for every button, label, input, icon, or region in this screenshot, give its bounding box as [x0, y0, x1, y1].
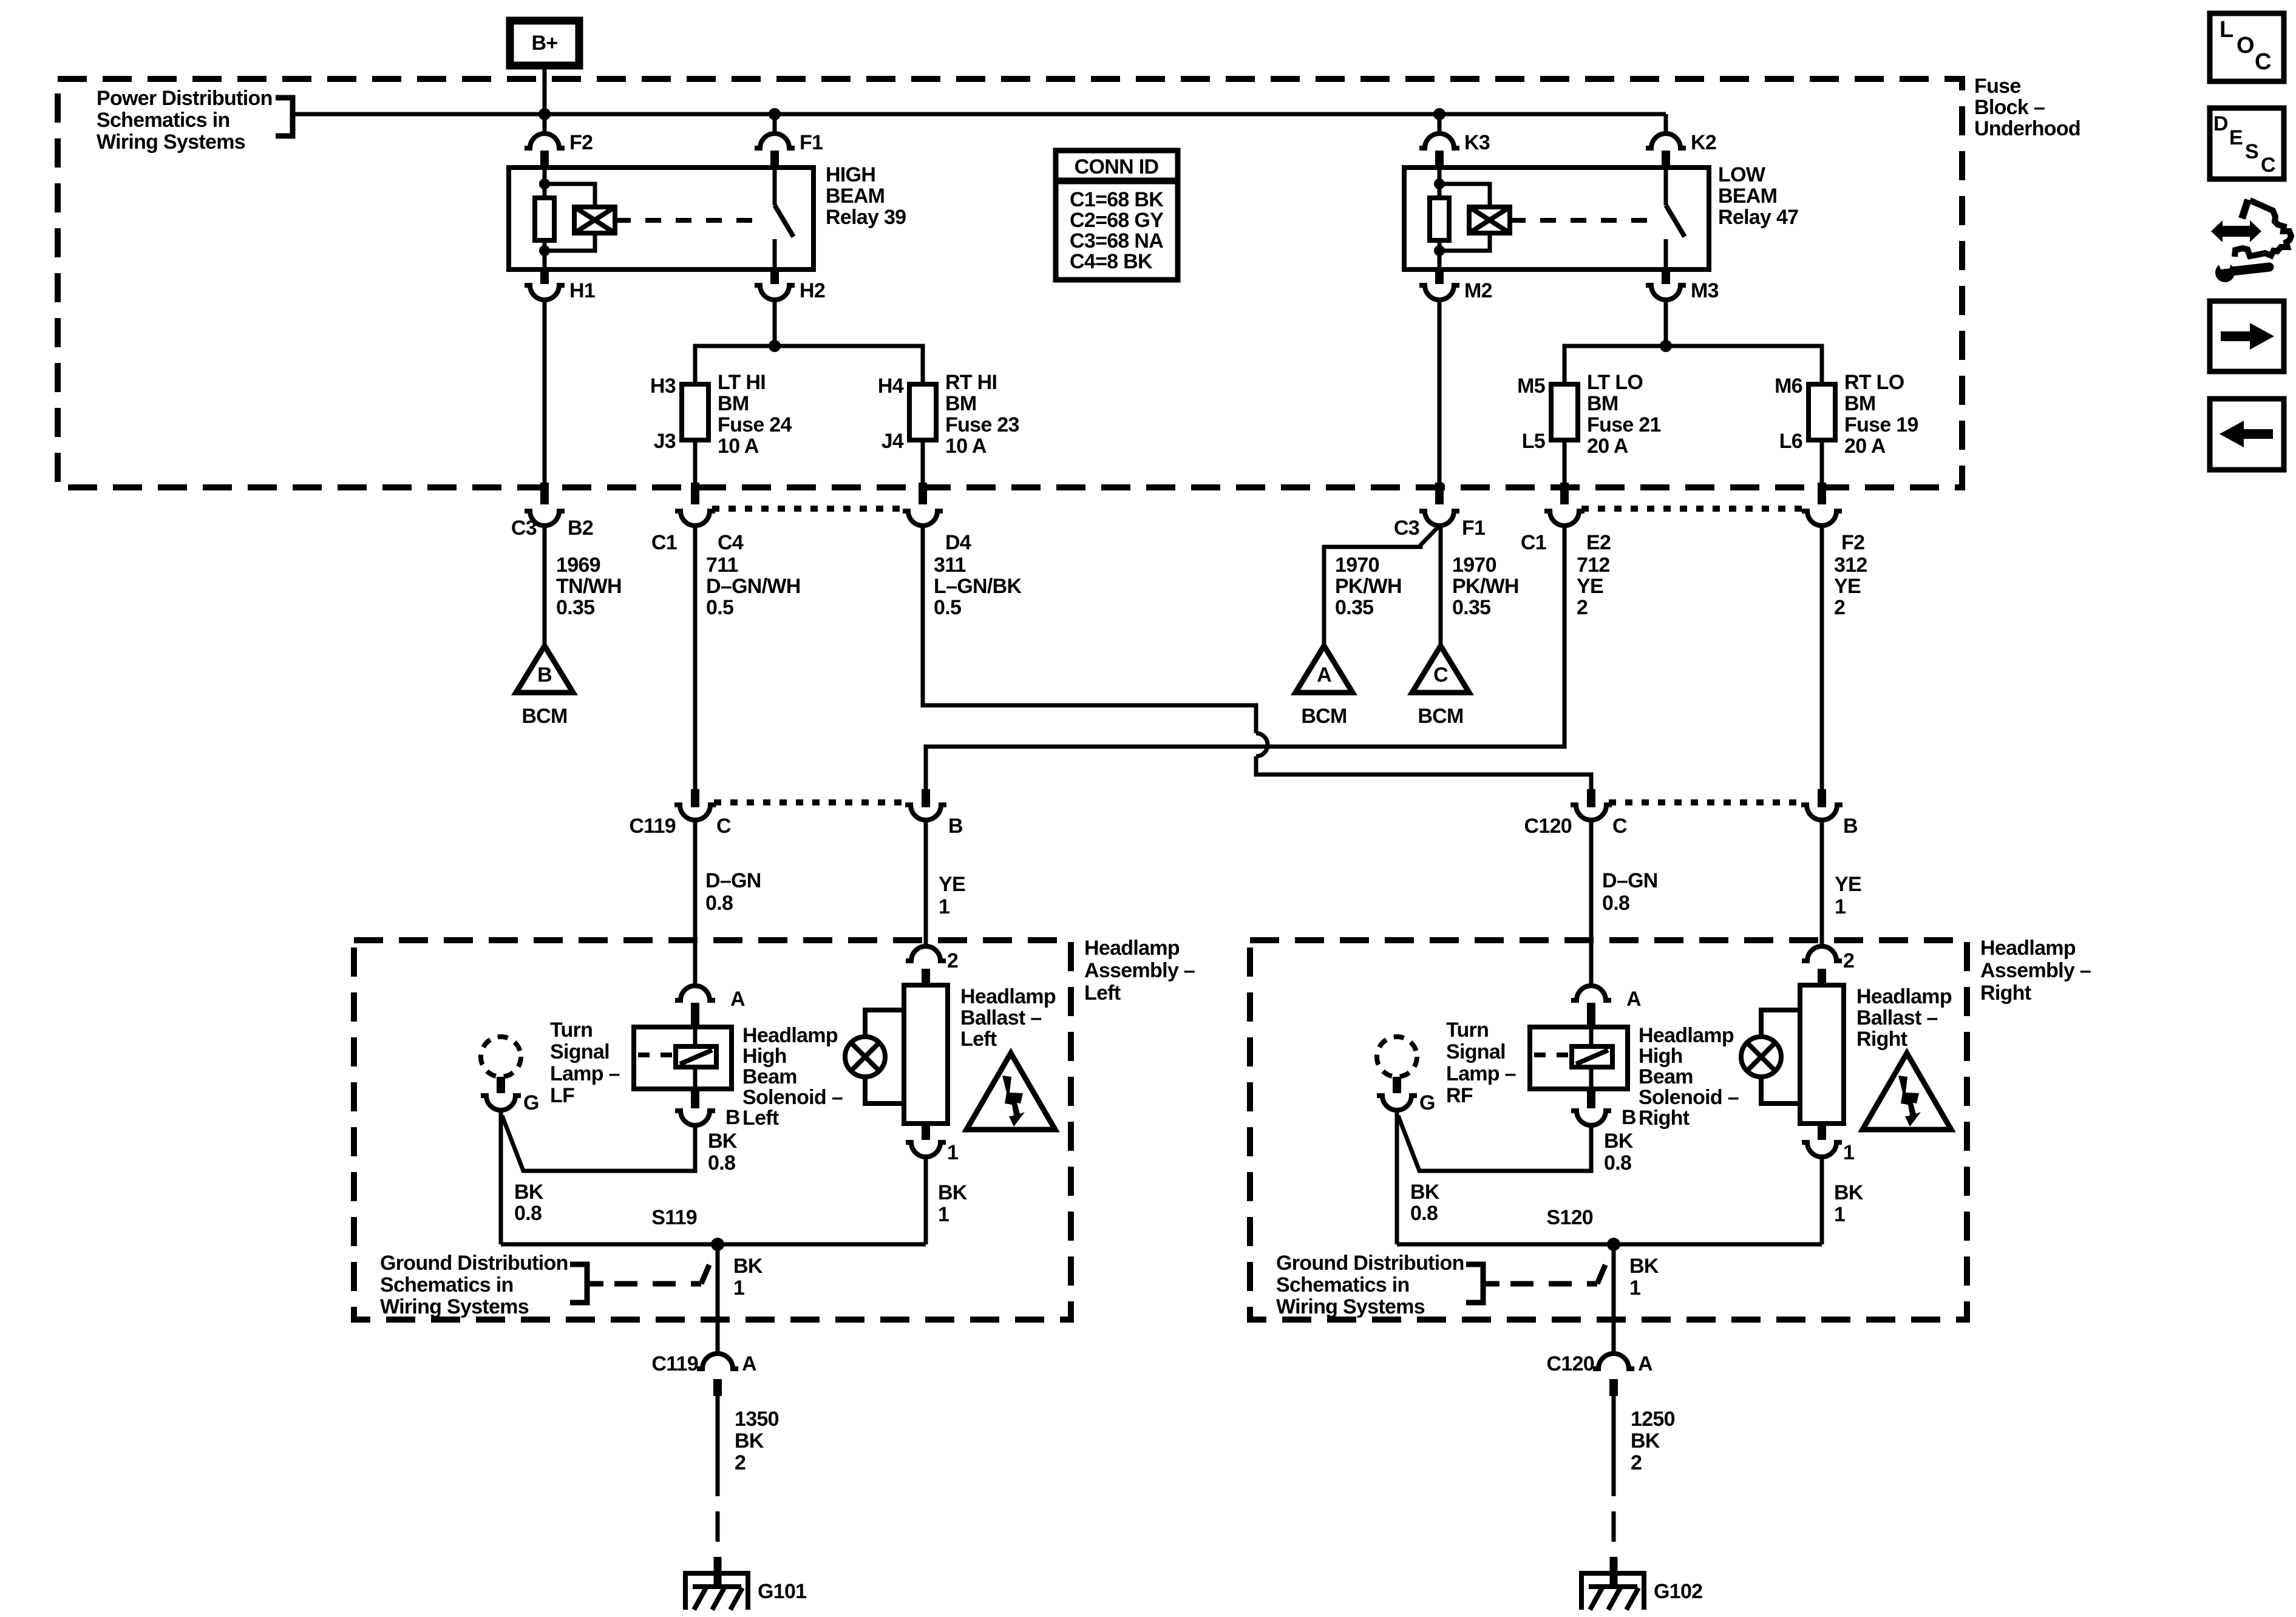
svg-text:2: 2 — [1577, 596, 1588, 619]
icon arrow right — [2210, 301, 2284, 371]
svg-text:O: O — [2237, 33, 2254, 58]
solenoid coil — [676, 1046, 716, 1067]
headlamp ballast Right — [1800, 985, 1844, 1124]
svg-text:Headlamp: Headlamp — [1856, 985, 1952, 1008]
lamp circle — [1741, 1037, 1781, 1077]
coil — [1469, 207, 1510, 233]
svg-text:B: B — [725, 1106, 740, 1129]
connector cup — [1802, 511, 1842, 526]
coil — [574, 207, 615, 233]
node bus/K3 — [1433, 108, 1445, 120]
connector pin H2 — [770, 269, 779, 284]
svg-text:Ballast –: Ballast – — [1856, 1006, 1938, 1029]
svg-text:S120: S120 — [1546, 1206, 1593, 1229]
fuse LT LO BM Fuse 21 20A — [1551, 384, 1578, 440]
svg-text:J3: J3 — [654, 430, 676, 453]
svg-text:Headlamp: Headlamp — [1980, 937, 2076, 960]
svg-text:0.8: 0.8 — [1602, 892, 1629, 915]
dashed link — [638, 1053, 676, 1057]
svg-text:Fuse 23: Fuse 23 — [945, 413, 1019, 436]
svg-text:RF: RF — [1446, 1084, 1473, 1107]
connector pin G — [497, 1077, 505, 1093]
svg-text:B: B — [1622, 1106, 1636, 1129]
wire 1970 to BCM C — [1439, 526, 1443, 646]
connector stub — [1560, 483, 1569, 504]
svg-text:1: 1 — [939, 895, 949, 918]
wire bus to F2 — [543, 114, 547, 134]
solenoid coil — [1572, 1046, 1612, 1067]
svg-text:D–GN/WH: D–GN/WH — [706, 575, 801, 598]
svg-text:L6: L6 — [1779, 430, 1802, 453]
svg-text:YE: YE — [1834, 575, 1861, 598]
svg-text:B+: B+ — [531, 32, 557, 55]
svg-text:BM: BM — [945, 392, 976, 415]
svg-text:BEAM: BEAM — [1718, 185, 1777, 208]
svg-text:High: High — [1639, 1045, 1683, 1068]
svg-text:Wiring Systems: Wiring Systems — [380, 1295, 529, 1318]
svg-text:10 A: 10 A — [945, 435, 987, 458]
svg-text:Left: Left — [1084, 981, 1121, 1005]
svg-text:Right: Right — [1856, 1028, 1907, 1051]
node fuse branch right — [1660, 340, 1672, 352]
svg-text:1969: 1969 — [556, 554, 600, 577]
svg-text:Wiring Systems: Wiring Systems — [1276, 1295, 1425, 1318]
svg-text:F2: F2 — [1841, 531, 1864, 554]
svg-text:1: 1 — [1834, 1203, 1845, 1226]
svg-text:1250: 1250 — [1631, 1408, 1675, 1431]
svg-text:Schematics in: Schematics in — [1276, 1273, 1410, 1297]
svg-text:A: A — [742, 1352, 756, 1375]
lamp circle — [845, 1037, 885, 1077]
svg-text:C119: C119 — [651, 1352, 698, 1375]
connector pin F2 — [525, 134, 565, 148]
svg-text:C120: C120 — [1524, 815, 1572, 838]
resistor — [535, 198, 554, 240]
switch — [773, 168, 777, 205]
svg-text:LOW: LOW — [1718, 163, 1766, 186]
node fuse branch left — [769, 340, 781, 352]
svg-text:20 A: 20 A — [1844, 435, 1886, 458]
svg-text:C: C — [1433, 663, 1448, 686]
svg-text:RT LO: RT LO — [1844, 371, 1904, 394]
svg-text:2: 2 — [1834, 596, 1845, 619]
icon wrench — [2215, 263, 2235, 282]
connector pin B solenoid — [1587, 1089, 1595, 1108]
svg-text:C1: C1 — [651, 531, 677, 554]
svg-text:Ballast –: Ballast – — [960, 1006, 1042, 1029]
dotted connector link C119 — [714, 799, 908, 805]
svg-text:K2: K2 — [1691, 131, 1716, 154]
svg-text:0.5: 0.5 — [934, 596, 961, 619]
warning triangle high voltage — [966, 1053, 1055, 1130]
svg-text:PK/WH: PK/WH — [1335, 575, 1402, 598]
svg-text:C: C — [2255, 49, 2271, 75]
svg-text:B: B — [537, 663, 552, 686]
dashed link — [1534, 1053, 1572, 1057]
headlamp high beam solenoid Right box — [1530, 1027, 1628, 1089]
svg-text:Headlamp: Headlamp — [742, 1024, 838, 1047]
bracket ground note — [570, 1264, 587, 1303]
svg-text:PK/WH: PK/WH — [1452, 575, 1519, 598]
svg-text:HIGH: HIGH — [826, 163, 875, 186]
svg-text:1: 1 — [1629, 1276, 1640, 1300]
connector pin 1 ballast — [1818, 1124, 1826, 1140]
svg-text:D–GN: D–GN — [705, 869, 761, 892]
connector pin H1 — [540, 269, 549, 284]
svg-text:BK: BK — [514, 1181, 544, 1204]
wire 1970 branch to BCM A — [1324, 526, 1439, 646]
connector cup — [525, 511, 565, 526]
splice S119 — [711, 1238, 724, 1251]
svg-text:0.35: 0.35 — [556, 596, 594, 619]
wire 1350 BK 2 — [716, 1396, 720, 1496]
ground G102 — [1581, 1573, 1644, 1610]
dashed wire to ground — [716, 1511, 720, 1542]
svg-text:H1: H1 — [569, 279, 595, 302]
svg-text:TN/WH: TN/WH — [556, 575, 622, 598]
svg-text:F2: F2 — [569, 131, 593, 154]
headlamp assembly dashed box Right — [1250, 940, 1967, 1320]
connector pin B solenoid — [691, 1089, 699, 1108]
relay box — [509, 168, 813, 269]
svg-text:Block –: Block – — [1974, 96, 2045, 119]
icon DESC — [2210, 108, 2284, 179]
svg-text:M3: M3 — [1691, 279, 1719, 302]
wire M3 to fuse branch — [1664, 300, 1668, 346]
wire fuse J3 down — [693, 440, 698, 484]
svg-text:711: 711 — [706, 554, 738, 577]
connector pin K2 — [1646, 134, 1686, 148]
svg-text:Right: Right — [1980, 981, 2031, 1005]
svg-text:0.35: 0.35 — [1335, 596, 1373, 619]
connector cup — [1419, 511, 1459, 526]
svg-text:2: 2 — [1631, 1451, 1642, 1474]
wire fuse L5 down — [1563, 440, 1567, 484]
fuse block dashed box — [58, 79, 1962, 487]
svg-text:M2: M2 — [1464, 279, 1492, 302]
svg-text:S: S — [2245, 140, 2258, 163]
connector stub — [922, 789, 930, 807]
connector pin K3 — [1419, 134, 1459, 148]
svg-text:G102: G102 — [1654, 1580, 1702, 1603]
svg-text:BEAM: BEAM — [826, 185, 885, 208]
svg-text:Turn: Turn — [1446, 1019, 1489, 1042]
svg-text:B: B — [1843, 815, 1858, 838]
connector stub — [1435, 483, 1444, 504]
turn signal lamp Left dashed circle — [481, 1037, 521, 1077]
svg-text:2: 2 — [947, 949, 958, 972]
svg-text:Ground Distribution: Ground Distribution — [1276, 1252, 1464, 1275]
wire splice down — [1612, 1244, 1616, 1354]
svg-text:Signal: Signal — [550, 1040, 610, 1063]
svg-text:C4=8 BK: C4=8 BK — [1070, 250, 1153, 273]
svg-text:F1: F1 — [1462, 517, 1485, 540]
dotted connector link C1 — [712, 506, 906, 512]
svg-text:C: C — [716, 815, 731, 838]
warning triangle high voltage — [1863, 1053, 1951, 1130]
svg-text:Ground Distribution: Ground Distribution — [380, 1252, 568, 1275]
wire solenoid B to G — [1398, 1116, 1591, 1171]
wire 1250 BK 2 — [1612, 1396, 1616, 1496]
svg-text:0.5: 0.5 — [706, 596, 733, 619]
wire B+ to bus — [543, 66, 547, 114]
svg-text:Beam: Beam — [742, 1065, 797, 1088]
svg-text:Underhood: Underhood — [1974, 117, 2080, 140]
svg-text:Fuse 21: Fuse 21 — [1587, 413, 1661, 436]
wire 712 YE (E2 to C119 B) — [926, 526, 1564, 790]
svg-text:C119: C119 — [629, 815, 676, 838]
svg-text:0.8: 0.8 — [514, 1202, 542, 1225]
switch — [1664, 168, 1668, 205]
dashed actuator link — [615, 218, 767, 223]
svg-text:Beam: Beam — [1639, 1065, 1693, 1088]
svg-text:BM: BM — [718, 392, 749, 415]
wire splice down — [716, 1244, 720, 1354]
svg-text:LT HI: LT HI — [718, 371, 766, 394]
connector cup — [903, 511, 943, 526]
svg-text:20 A: 20 A — [1587, 435, 1628, 458]
wire hop over 712 — [1256, 733, 1268, 756]
svg-text:BK: BK — [1834, 1181, 1864, 1204]
svg-text:Power Distribution: Power Distribution — [97, 87, 273, 110]
relay coil wire — [1438, 168, 1442, 198]
svg-text:1350: 1350 — [735, 1408, 779, 1431]
connector pin 2 ballast — [1802, 946, 1842, 961]
BCM triangle B — [516, 646, 573, 693]
svg-text:Schematics in: Schematics in — [97, 109, 230, 132]
bracket ground note — [1466, 1264, 1483, 1303]
svg-text:Headlamp: Headlamp — [960, 985, 1056, 1008]
wire YE 1 left — [924, 820, 928, 946]
svg-text:M5: M5 — [1517, 375, 1545, 398]
svg-text:BCM: BCM — [1301, 705, 1347, 728]
headlamp assembly dashed box Left — [354, 940, 1071, 1320]
connector pin A solenoid — [1571, 986, 1611, 1000]
svg-text:BK: BK — [1631, 1429, 1660, 1453]
svg-text:E: E — [2229, 126, 2243, 149]
svg-text:C4: C4 — [718, 531, 744, 554]
connector pin 1 ballast — [922, 1124, 930, 1140]
connector cup — [1571, 805, 1612, 820]
svg-text:L: L — [2220, 17, 2233, 42]
connector pin M2 — [1435, 269, 1444, 284]
svg-text:E2: E2 — [1586, 531, 1611, 554]
svg-text:Fuse 24: Fuse 24 — [718, 413, 792, 436]
svg-text:Left: Left — [742, 1107, 779, 1130]
wire M2 down to C3-F1 — [1438, 300, 1442, 484]
resistor — [1430, 198, 1449, 240]
wire YE 1 right — [1820, 820, 1824, 946]
svg-text:0.8: 0.8 — [708, 1151, 735, 1175]
svg-text:G: G — [523, 1091, 539, 1114]
connector cup — [1801, 805, 1843, 820]
dotted connector link C120 — [1609, 799, 1804, 805]
svg-text:L–GN/BK: L–GN/BK — [934, 575, 1022, 598]
connector stub — [691, 789, 699, 807]
svg-text:YE: YE — [939, 873, 965, 896]
wire D-GN 0.8 left — [693, 820, 698, 986]
svg-text:A: A — [1626, 988, 1641, 1011]
wire fuse L6 down — [1820, 440, 1824, 484]
svg-text:RT HI: RT HI — [945, 371, 997, 394]
bus wire B+ feed — [293, 112, 1666, 117]
svg-text:Assembly –: Assembly – — [1084, 959, 1195, 982]
svg-text:Right: Right — [1639, 1107, 1690, 1130]
svg-text:B2: B2 — [568, 517, 593, 540]
svg-text:L5: L5 — [1522, 430, 1545, 453]
dashed wire to ground — [1612, 1511, 1616, 1542]
splice S120 — [1607, 1238, 1620, 1251]
svg-text:H3: H3 — [650, 375, 676, 398]
svg-text:High: High — [742, 1045, 787, 1068]
svg-text:Relay 39: Relay 39 — [826, 206, 906, 229]
connector pin F1 — [755, 134, 795, 148]
connector stub — [919, 483, 927, 504]
svg-text:0.8: 0.8 — [705, 892, 733, 915]
connector C119 pin A — [697, 1354, 738, 1369]
svg-text:BK: BK — [1410, 1181, 1440, 1204]
svg-text:Signal: Signal — [1446, 1040, 1506, 1063]
connector C120 pin A — [1593, 1354, 1634, 1369]
svg-text:Solenoid –: Solenoid – — [742, 1086, 843, 1109]
svg-text:1: 1 — [938, 1203, 949, 1226]
svg-text:2: 2 — [735, 1451, 746, 1474]
svg-text:1: 1 — [733, 1276, 744, 1300]
svg-text:Left: Left — [960, 1028, 997, 1051]
svg-text:Solenoid –: Solenoid – — [1639, 1086, 1739, 1109]
svg-text:C3: C3 — [1394, 517, 1419, 540]
svg-text:BM: BM — [1587, 392, 1618, 415]
dashed leader to splice — [614, 1281, 701, 1287]
headlamp ballast Left — [904, 985, 948, 1124]
svg-text:A: A — [730, 988, 745, 1011]
svg-text:BK: BK — [735, 1429, 764, 1453]
connector cup — [674, 805, 716, 820]
svg-text:C1=68 BK: C1=68 BK — [1070, 188, 1164, 211]
svg-text:0.35: 0.35 — [1452, 596, 1490, 619]
BCM triangle C — [1412, 646, 1469, 693]
svg-text:1970: 1970 — [1335, 554, 1379, 577]
svg-text:BK: BK — [1629, 1255, 1659, 1278]
wire G to splice — [1395, 1110, 1399, 1244]
wire coil branch — [545, 184, 595, 207]
wire ballast 1 to splice bus — [924, 1157, 928, 1244]
svg-text:1970: 1970 — [1452, 554, 1496, 577]
wire bus to K3 — [1438, 114, 1442, 134]
svg-text:Schematics in: Schematics in — [380, 1273, 514, 1297]
svg-text:C120: C120 — [1547, 1352, 1594, 1375]
svg-text:K3: K3 — [1464, 131, 1490, 154]
fuse RT LO BM Fuse 19 20A — [1809, 384, 1835, 440]
svg-text:BCM: BCM — [1418, 705, 1463, 728]
dashed leader to splice — [1510, 1281, 1597, 1287]
svg-text:1: 1 — [1835, 895, 1846, 918]
wire ballast 1 to splice bus — [1820, 1157, 1824, 1244]
ground G101 — [685, 1573, 748, 1610]
svg-text:F1: F1 — [800, 131, 823, 154]
svg-text:10 A: 10 A — [718, 435, 759, 458]
node bus/F1 — [769, 108, 781, 120]
icon vehicle navigation — [2242, 200, 2248, 219]
svg-text:G101: G101 — [758, 1580, 806, 1603]
svg-text:0.8: 0.8 — [1604, 1151, 1631, 1175]
svg-text:S119: S119 — [651, 1206, 697, 1229]
svg-text:D–GN: D–GN — [1602, 869, 1658, 892]
battery feed B+ — [510, 21, 579, 66]
svg-text:C3: C3 — [511, 517, 537, 540]
icon arrow left — [2210, 399, 2284, 470]
wire bus to F1 — [773, 114, 777, 134]
svg-text:Lamp –: Lamp – — [1446, 1062, 1516, 1085]
svg-text:BK: BK — [708, 1130, 738, 1153]
svg-text:D4: D4 — [945, 531, 971, 554]
svg-text:H4: H4 — [878, 375, 904, 398]
BCM triangle A — [1296, 646, 1353, 693]
svg-text:YE: YE — [1577, 575, 1603, 598]
connector stub — [691, 483, 699, 504]
svg-text:BCM: BCM — [521, 705, 567, 728]
svg-text:C2=68 GY: C2=68 GY — [1070, 209, 1164, 232]
svg-text:C3=68 NA: C3=68 NA — [1070, 229, 1163, 253]
headlamp high beam solenoid Left box — [634, 1027, 732, 1089]
svg-text:D: D — [2213, 112, 2228, 135]
connector pin G — [1393, 1077, 1401, 1093]
CONN ID table — [1056, 151, 1178, 280]
svg-text:C1: C1 — [1521, 531, 1546, 554]
svg-text:1: 1 — [947, 1141, 958, 1164]
wire fuse J4 down — [921, 440, 925, 484]
fuse RT HI BM Fuse 23 10A — [909, 384, 936, 440]
svg-text:LT LO: LT LO — [1587, 371, 1643, 394]
svg-text:BK: BK — [938, 1181, 968, 1204]
svg-text:C: C — [2261, 154, 2275, 177]
svg-text:J4: J4 — [881, 430, 904, 453]
relay coil wire — [543, 168, 547, 198]
svg-text:BK: BK — [733, 1255, 763, 1278]
svg-text:0.8: 0.8 — [1410, 1202, 1438, 1225]
wire coil branch — [1439, 184, 1490, 207]
svg-text:LF: LF — [550, 1084, 574, 1107]
svg-text:Turn: Turn — [550, 1019, 593, 1042]
svg-text:Fuse 19: Fuse 19 — [1844, 413, 1918, 436]
svg-text:312: 312 — [1834, 554, 1867, 577]
dotted connector link C1 right — [1581, 506, 1805, 512]
svg-text:311: 311 — [934, 554, 966, 577]
svg-text:Headlamp: Headlamp — [1084, 937, 1180, 960]
connector pin 2 ballast — [906, 946, 946, 961]
connector pin A solenoid — [675, 986, 715, 1000]
svg-text:YE: YE — [1835, 873, 1861, 896]
svg-text:M6: M6 — [1775, 375, 1802, 398]
wire 711 D-GN/WH — [693, 526, 698, 790]
svg-text:Assembly –: Assembly – — [1980, 959, 2091, 982]
wire D-GN 0.8 right — [1589, 820, 1594, 986]
relay box — [1404, 168, 1709, 269]
svg-text:Headlamp: Headlamp — [1639, 1024, 1734, 1047]
bracket power distribution — [276, 98, 293, 136]
svg-text:712: 712 — [1577, 554, 1610, 577]
svg-text:A: A — [1638, 1352, 1652, 1375]
svg-text:CONN ID: CONN ID — [1075, 155, 1159, 178]
svg-text:Fuse: Fuse — [1974, 75, 2021, 98]
connector cup — [675, 511, 715, 526]
svg-text:G: G — [1419, 1091, 1435, 1114]
splice bus S119 — [501, 1242, 926, 1247]
wire 312 YE (F2 to C120 B) — [1820, 526, 1824, 790]
connector stub — [1818, 483, 1826, 504]
wire H2 to fuse branch — [773, 300, 777, 346]
wire 311 L-GN/BK (D4 to C120 C) — [923, 526, 1256, 733]
